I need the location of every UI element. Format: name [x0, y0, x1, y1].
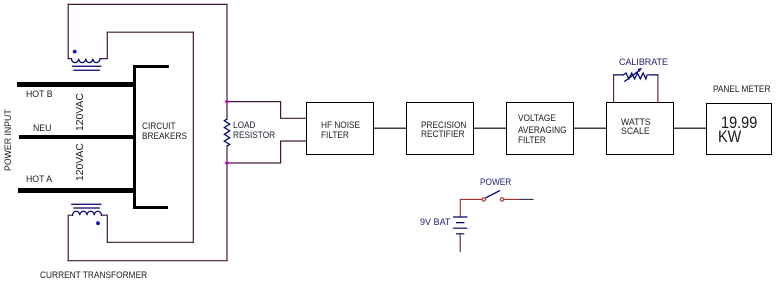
signal wire watts scale to panel meter	[674, 127, 706, 129]
wire inner loop top	[107, 31, 193, 33]
signal wire rectifier to averaging filter	[474, 127, 506, 129]
transformer T1 primary coil	[72, 59, 100, 63]
wire bottom horizontal run	[68, 260, 227, 262]
block VOLTAGE AVERAGING FILTER	[506, 102, 575, 155]
transformer T2 core	[72, 204, 101, 208]
wire calibrate pot right leg	[657, 75, 659, 102]
signal wire HF to rectifier	[374, 127, 407, 129]
label PANEL METER	[713, 85, 770, 95]
potentiometer CALIBRATE leads	[614, 74, 658, 76]
wire top horizontal run	[68, 3, 227, 5]
wire inner loop bottom	[107, 241, 193, 243]
wire from switch right	[504, 198, 520, 200]
label 120VAC upper (vertical)	[76, 93, 86, 131]
transformer T1 core	[73, 66, 101, 70]
wire T2 right lead down	[102, 215, 108, 242]
label CURRENT TRANSFORMER	[40, 271, 147, 281]
block PRECISION RECTIFIER	[406, 102, 474, 155]
circuit breaker top stub	[133, 65, 169, 68]
transformer T1 phasing dot	[73, 50, 77, 54]
junction node A	[225, 99, 230, 104]
wire node B down to bottom run	[226, 163, 228, 261]
wire node B to jog	[227, 141, 306, 163]
label VOLTAGE AVERAGING FILTER	[518, 114, 556, 124]
resistor load zigzag	[224, 119, 229, 146]
switch S1 pole contact	[482, 198, 485, 201]
label PRECISION RECTIFIER	[421, 121, 466, 131]
label 9V BAT	[420, 218, 450, 228]
label CIRCUIT BREAKERS	[142, 122, 176, 132]
potentiometer CALIBRATE wiper arrow	[625, 70, 640, 81]
wire top-left vertical from T1	[67, 4, 69, 58]
wire bottom-left vertical to T2	[68, 215, 72, 261]
switch S1 blade	[486, 191, 499, 198]
block PANEL METER display	[706, 103, 772, 155]
meter reading 19.99 KW	[721, 114, 757, 131]
label NEU	[33, 124, 51, 134]
circuit breaker bus vertical	[133, 65, 136, 209]
wire HOT B bus bar	[17, 82, 136, 87]
label POWER INPUT (vertical)	[4, 110, 14, 172]
transformer T2 secondary coil	[73, 211, 102, 215]
wire node A to jog	[227, 102, 306, 119]
wire battery to switch	[460, 199, 482, 217]
circuit breaker bottom stub	[133, 206, 168, 209]
label 120VAC lower (vertical)	[76, 143, 86, 181]
label CALIBRATE	[619, 58, 668, 68]
junction node B	[225, 161, 230, 166]
transformer T2 phasing dot	[96, 221, 100, 225]
switch S1 throw contact	[500, 198, 503, 201]
wire T1 left lead	[68, 58, 71, 60]
label WATTS SCALE	[621, 118, 651, 128]
potentiometer CALIBRATE zigzag	[624, 73, 648, 79]
wire calibrate pot left leg	[613, 75, 615, 102]
battery BT1 plates	[454, 217, 467, 234]
label HF NOISE FILTER	[321, 121, 360, 131]
wire right vertical down to node A	[226, 4, 228, 101]
label POWER	[480, 178, 511, 188]
wire battery negative stub	[459, 234, 461, 252]
wire inner loop right vertical	[192, 32, 194, 242]
label HOT A	[26, 175, 52, 185]
wire NEU bus bar	[19, 135, 137, 140]
wire T1 right lead up	[100, 32, 107, 58]
block HF NOISE FILTER	[306, 102, 374, 155]
label LOAD RESISTOR	[233, 121, 256, 131]
label HOT B	[26, 90, 53, 100]
signal wire filter to watts scale	[574, 127, 606, 129]
wire load resistor leads	[226, 102, 228, 163]
block WATTS SCALE	[606, 102, 674, 155]
wire HOT A bus bar	[18, 188, 136, 193]
